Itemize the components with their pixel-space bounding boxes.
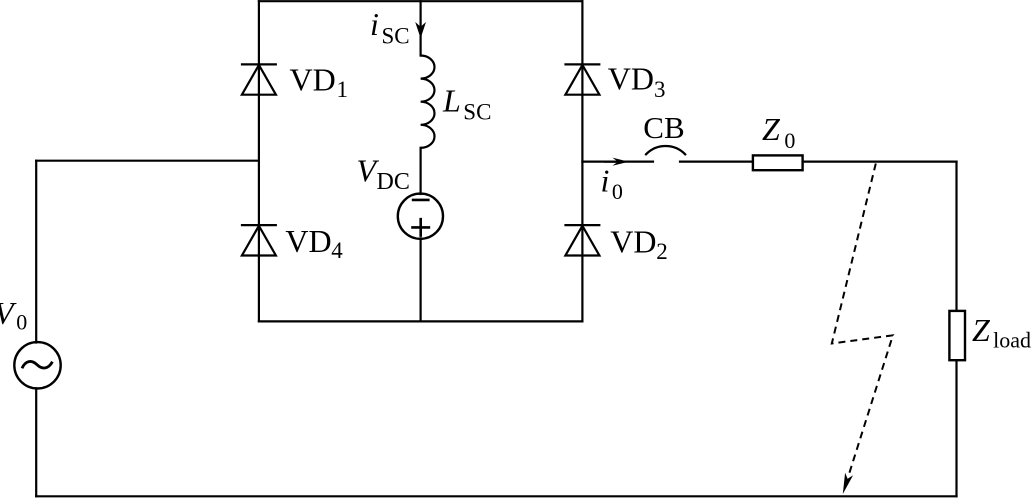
fault dashed lightning (832, 164, 893, 477)
wire right horizontal: bridge to CB gap (582, 161, 653, 163)
wire left horizontal (36, 160, 259, 162)
impedance Zload box (949, 311, 965, 360)
svg-text:SC: SC (463, 100, 491, 125)
svg-text:i: i (370, 6, 379, 42)
svg-text:VD: VD (285, 223, 331, 259)
svg-text:3: 3 (654, 77, 666, 102)
diode VD1 (241, 64, 277, 94)
inductor L_SC (421, 56, 435, 148)
wire right vertical lower (955, 361, 957, 496)
svg-text:i: i (601, 163, 610, 199)
svg-text:Z: Z (972, 312, 991, 348)
svg-text:load: load (993, 328, 1031, 353)
wire bridge right vertical (581, 1, 583, 321)
wire bridge bottom (259, 320, 583, 322)
diode VD4 (241, 225, 277, 255)
svg-text:0: 0 (784, 128, 795, 153)
diode VD2 (564, 225, 600, 255)
current arrow i_0 (612, 158, 628, 166)
svg-text:VD: VD (290, 62, 336, 98)
wire middle vertical top segment (420, 1, 422, 55)
svg-text:0: 0 (16, 310, 27, 335)
fault arrowhead (843, 473, 853, 494)
current arrow i_SC (415, 22, 426, 38)
svg-text:1: 1 (337, 77, 349, 102)
source V_DC circle (398, 194, 443, 239)
wire bridge left vertical (258, 1, 260, 321)
source V0 sine symbol (22, 361, 52, 368)
svg-text:L: L (442, 83, 461, 119)
wire middle bottom segment (420, 238, 422, 321)
wire middle between inductor and source (420, 148, 422, 194)
wire bridge top (259, 0, 583, 2)
wire left vertical upper (35, 161, 37, 343)
source V_DC minus sign (412, 199, 430, 202)
breaker CB arc (646, 146, 685, 154)
svg-text:DC: DC (377, 169, 410, 195)
wire right vertical upper (955, 162, 957, 310)
wire CB gap to Z0 (680, 161, 752, 163)
svg-text:CB: CB (643, 110, 684, 145)
resistor Z0 box (753, 155, 803, 170)
svg-text:VD: VD (608, 61, 654, 97)
svg-text:Z: Z (762, 111, 781, 147)
wire bottom (36, 495, 956, 497)
svg-text:2: 2 (656, 239, 668, 264)
wire left vertical lower (35, 388, 37, 496)
svg-text:4: 4 (331, 238, 343, 263)
diode VD3 (564, 64, 600, 94)
svg-text:SC: SC (382, 23, 410, 48)
svg-text:0: 0 (612, 179, 623, 204)
svg-text:VD: VD (610, 223, 656, 259)
source V_DC plus sign (411, 218, 430, 237)
source V0 circle (14, 342, 60, 388)
wire Z0 to right corner (804, 161, 957, 163)
